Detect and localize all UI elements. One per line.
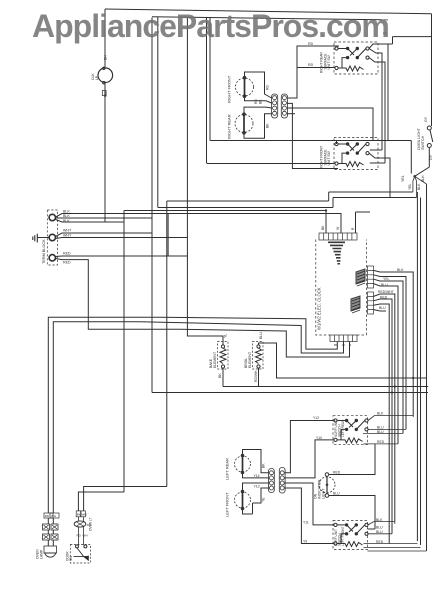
svg-text:YEL: YEL xyxy=(383,277,390,281)
svg-text:RED: RED xyxy=(380,296,388,300)
svg-text:BK: BK xyxy=(104,55,108,60)
ground wire xyxy=(37,237,49,239)
broil element resistor xyxy=(257,345,260,348)
svg-text:BLU: BLU xyxy=(379,306,386,310)
wire connector row3 xyxy=(287,108,373,141)
svg-text:YEL: YEL xyxy=(401,175,405,182)
svg-text:YL: YL xyxy=(224,334,228,338)
wire broil top xyxy=(259,343,428,378)
X crossover node xyxy=(413,176,427,197)
wire clock fan out 4 xyxy=(374,284,399,444)
clock right connector col 1 xyxy=(368,266,374,288)
wire clock fan out 3 BLU xyxy=(374,279,404,433)
oven lamp label RD xyxy=(44,513,59,518)
switch3 blades xyxy=(337,421,365,440)
broil element dashed box xyxy=(253,342,264,370)
svg-text:BLK: BLK xyxy=(421,175,425,182)
wires lamp stems xyxy=(48,518,53,546)
svg-text:ONINDICATORLIGHT: ONINDICATORLIGHT xyxy=(314,479,326,499)
connector bottom col A xyxy=(269,469,275,493)
wire drop pair B xyxy=(186,17,188,256)
junction xyxy=(325,209,327,211)
svg-text:OVEN LT: OVEN LT xyxy=(89,518,93,531)
burner LEFT FRONT wires xyxy=(243,483,269,514)
switch4 blades xyxy=(337,525,365,544)
terminal BLK xyxy=(49,214,55,220)
svg-text:W1/W2 ELEC. CLOCK: W1/W2 ELEC. CLOCK xyxy=(317,287,322,330)
svg-text:Y11: Y11 xyxy=(303,521,309,525)
svg-text:RD: RD xyxy=(77,534,82,538)
surface unit RIGHT FRONT xyxy=(236,78,254,96)
wire RED1 xyxy=(56,214,223,346)
wire indicator top xyxy=(329,444,375,475)
surface unit LEFT REAR xyxy=(235,456,251,472)
svg-text:BLU: BLU xyxy=(376,526,383,530)
door switch dashed box xyxy=(70,545,90,564)
svg-text:BLK: BLK xyxy=(63,214,70,218)
wire long H to right bundle 1 xyxy=(167,192,418,541)
wire conn row3 to B4 upper xyxy=(285,483,334,525)
oven lamp receptacle top xyxy=(98,68,113,83)
ON indicator light xyxy=(319,477,335,493)
svg-text:RIGHT REAR: RIGHT REAR xyxy=(227,114,232,139)
wire drop to clock P3 xyxy=(356,212,371,233)
wire clock fan out 1 BLK xyxy=(374,270,414,415)
svg-text:RED: RED xyxy=(63,261,71,265)
wire lamp feed 2 xyxy=(53,322,343,513)
svg-text:RD: RD xyxy=(265,85,269,90)
svg-text:RED: RED xyxy=(63,252,71,256)
clock ribbon hatch 1 xyxy=(356,269,365,286)
switch LEFT REAR SURFACE dashed box xyxy=(333,416,368,445)
wire switch2 in upper xyxy=(210,141,411,145)
switch1 blades xyxy=(338,49,366,69)
wire clock fan out 7 BLU xyxy=(374,304,390,544)
switch RIGHT FRONT SURFACE dashed box xyxy=(334,138,378,170)
svg-text:W: W xyxy=(342,343,345,347)
wire door switch elbow 1 xyxy=(84,487,167,512)
svg-text:WH: WH xyxy=(51,514,56,518)
wire left drop to lamp receptacle xyxy=(104,9,106,67)
wire connector row4 xyxy=(287,113,295,115)
wire drop pair A1 xyxy=(151,18,153,393)
clock top pin strip xyxy=(319,233,357,240)
wire jog drop to X xyxy=(388,44,411,174)
clock right connector col 2 xyxy=(368,292,374,314)
door switch symbol xyxy=(76,545,79,548)
switch1 terminals xyxy=(335,47,338,50)
svg-text:BLU: BLU xyxy=(333,492,340,496)
wire connector row2 xyxy=(287,103,338,168)
switch3 terminals xyxy=(334,419,337,422)
wire clock fan out 2 YEL xyxy=(374,275,407,430)
svg-text:Y12: Y12 xyxy=(313,416,319,420)
switch4 resistor xyxy=(337,542,363,547)
burner RIGHT REAR wires xyxy=(244,107,272,138)
wire vertical to door switch elbow xyxy=(166,201,168,487)
svg-text:DOORSW: DOORSW xyxy=(66,551,74,561)
svg-text:RIGHT REARSURFACEUNIT SW: RIGHT REARSURFACEUNIT SW xyxy=(320,52,332,73)
svg-text:RIGHT FRONT: RIGHT FRONT xyxy=(227,75,232,103)
svg-text:BK: BK xyxy=(334,343,338,347)
svg-text:BROILELEMENT: BROILELEMENT xyxy=(244,352,252,368)
wire right edge upper xyxy=(431,14,433,126)
connector top col B xyxy=(281,94,287,118)
switch RIGHT REAR SURFACE dashed box xyxy=(334,42,378,74)
oven light receptacle oval xyxy=(74,521,86,527)
wire switch2 in lower xyxy=(207,163,336,165)
wire lamp feed 1 xyxy=(48,317,337,513)
clock board dashed outline xyxy=(316,240,367,336)
svg-text:BLK: BLK xyxy=(63,219,70,223)
svg-text:Y13: Y13 xyxy=(254,485,260,489)
bake element dashed box xyxy=(218,342,229,370)
junction dots bus xyxy=(394,385,396,387)
svg-text:R: R xyxy=(349,343,352,347)
svg-text:BK: BK xyxy=(265,123,269,128)
wire conn row1 to B3 upper xyxy=(285,421,334,473)
switch3 resistor xyxy=(337,438,363,443)
svg-text:BLU: BLU xyxy=(377,430,384,434)
wire connector RD to switch1 xyxy=(288,46,339,98)
wire switch1 out top jog xyxy=(369,37,432,49)
connector bottom col B xyxy=(279,468,285,494)
wire switch4 right rows xyxy=(364,522,395,544)
svg-text:Y14: Y14 xyxy=(254,474,260,478)
wire BLK2 xyxy=(56,217,152,219)
svg-text:WHT: WHT xyxy=(63,229,72,233)
watermark xyxy=(32,8,446,45)
svg-text:OVENLAMP: OVENLAMP xyxy=(36,549,44,559)
svg-text:BLU: BLU xyxy=(259,332,263,339)
wire bake bottom xyxy=(222,368,224,387)
svg-text:BK: BK xyxy=(259,99,263,104)
svg-text:BLK: BLK xyxy=(377,412,384,416)
wire switch2 out bottom xyxy=(369,153,390,197)
clock internal symbols xyxy=(328,242,345,265)
svg-text:BLK: BLK xyxy=(397,268,404,272)
wire drop pair A2 xyxy=(157,17,159,208)
svg-text:RD: RD xyxy=(254,99,258,104)
wire RED2 xyxy=(56,259,350,358)
svg-text:GY: GY xyxy=(424,116,428,122)
svg-text:RED/WHT: RED/WHT xyxy=(378,290,394,294)
door switch labels xyxy=(76,511,85,517)
terminal RED xyxy=(49,255,55,261)
svg-text:BAKEELEMENT: BAKEELEMENT xyxy=(209,352,217,368)
wire clock fan out 5 RED/WHT xyxy=(374,294,395,522)
wire top second bus xyxy=(152,17,388,20)
svg-text:Y9: Y9 xyxy=(303,540,307,544)
svg-text:RD: RD xyxy=(308,63,314,67)
svg-text:W: W xyxy=(336,226,340,230)
switch2 terminals xyxy=(335,142,338,145)
clock ribbon hatch 2 xyxy=(351,296,360,313)
wire switch to X diagonal xyxy=(415,148,430,177)
oven lamp connectors xyxy=(43,524,59,540)
junction X xyxy=(413,175,416,178)
wire bus lower xyxy=(152,392,428,394)
wire clock fan out 6 RED xyxy=(374,299,393,534)
surface unit LEFT FRONT xyxy=(235,492,251,508)
burner RIGHT FRONT wires xyxy=(245,72,272,103)
wire broil bottom xyxy=(258,368,260,387)
svg-text:BK: BK xyxy=(218,373,222,378)
svg-text:RIGHT FRONTSURFACEUNIT SW: RIGHT FRONTSURFACEUNIT SW xyxy=(320,146,332,169)
wire top L1 bus xyxy=(105,9,432,14)
surface unit RIGHT REAR xyxy=(235,115,253,133)
svg-text:SURF UNITSWITCHLEFT REAR: SURF UNITSWITCHLEFT REAR xyxy=(334,419,345,437)
svg-text:RD: RD xyxy=(45,514,50,518)
svg-text:BLK: BLK xyxy=(376,518,383,522)
terminal block dashed outline xyxy=(47,210,57,265)
svg-text:TERM BLOCK: TERM BLOCK xyxy=(42,239,46,264)
svg-text:R: R xyxy=(351,227,355,230)
svg-text:RED: RED xyxy=(377,440,385,444)
svg-text:YE: YE xyxy=(262,497,266,502)
switch2 blades xyxy=(338,144,366,164)
wire indicator bottom xyxy=(329,496,375,530)
switch LEFT FRONT SURFACE dashed box xyxy=(333,521,368,550)
svg-text:WH: WH xyxy=(82,512,87,516)
wire long H to right bundle 2 xyxy=(158,198,421,546)
wire bus upper xyxy=(223,386,428,388)
svg-text:LEFT REAR: LEFT REAR xyxy=(225,458,230,480)
wire switch4 bottom to right edge xyxy=(364,544,427,552)
connector top col A xyxy=(272,94,278,118)
clock bottom pin strip xyxy=(330,335,357,342)
svg-text:BLK: BLK xyxy=(63,210,70,214)
svg-text:BK: BK xyxy=(262,463,266,468)
wire BLK3 xyxy=(56,212,124,512)
wire BLK1 xyxy=(56,211,341,234)
burner LEFT REAR wires xyxy=(243,450,269,478)
oven lamp bulb xyxy=(44,546,57,553)
wire right edge lower xyxy=(426,184,428,551)
wires door switch stems xyxy=(78,517,83,545)
svg-text:RED: RED xyxy=(333,471,341,475)
svg-text:BK: BK xyxy=(321,225,325,230)
wire clock fan out 8 xyxy=(374,310,387,311)
svg-text:RD/WH: RD/WH xyxy=(254,370,258,382)
wire WHT2 xyxy=(56,238,188,239)
ground symbol xyxy=(33,234,38,243)
terminal WHT xyxy=(49,234,55,240)
switch2 resistor xyxy=(338,162,364,167)
wire drop pair C2 xyxy=(209,17,211,140)
wire left vertical to terminal block xyxy=(104,83,106,223)
wire B1 to B2 right 1 xyxy=(369,49,382,151)
wire B1 to B2 right 2 xyxy=(369,58,385,163)
wire WHT1 xyxy=(56,233,152,237)
wire into switch1 lower xyxy=(297,67,335,69)
switch4 terminals xyxy=(334,523,337,526)
bake element resistor xyxy=(221,345,224,348)
svg-text:BK: BK xyxy=(77,512,81,516)
svg-text:BLK: BLK xyxy=(417,183,421,190)
svg-text:Y10: Y10 xyxy=(316,436,322,440)
svg-text:WHT: WHT xyxy=(63,233,72,237)
svg-text:BLU: BLU xyxy=(376,530,383,534)
svg-text:YEL: YEL xyxy=(408,183,412,190)
wire drop pair C1 xyxy=(206,17,208,163)
wire conn row2 to B3 lower xyxy=(285,440,334,478)
switch1 resistor xyxy=(338,66,364,71)
wire conn row4 to B4 lower xyxy=(285,488,334,544)
svg-text:LEFT FRONT: LEFT FRONT xyxy=(225,492,230,517)
svg-text:RED: RED xyxy=(376,540,384,544)
wire switch3 right rows xyxy=(363,416,413,444)
svg-text:OVEN LIGHTSWITCH: OVEN LIGHTSWITCH xyxy=(417,127,425,150)
